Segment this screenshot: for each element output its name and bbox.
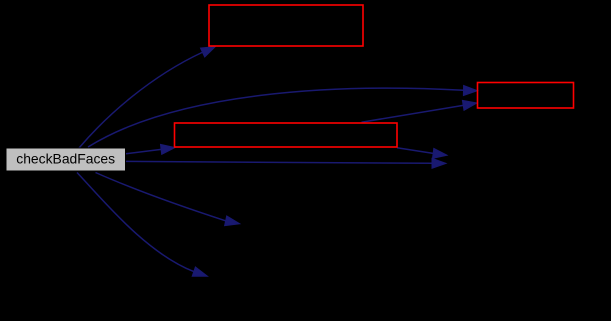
node checkBadFaces bbox=[6, 148, 126, 171]
edge checkBadFaces -> hidden node D bbox=[77, 173, 208, 277]
node top red box bbox=[209, 5, 363, 46]
edge checkBadFaces -> right red box (long arc) bbox=[88, 86, 478, 148]
edge checkBadFaces -> middle box bbox=[126, 144, 175, 154]
svg-text:checkBadFaces: checkBadFaces bbox=[16, 151, 115, 167]
edge checkBadFaces -> hidden node B bbox=[126, 158, 446, 168]
edge checkBadFaces -> top box bbox=[79, 47, 215, 148]
node middle red box bbox=[175, 123, 398, 147]
node right red box bbox=[478, 83, 574, 109]
edge checkBadFaces -> hidden node C bbox=[96, 173, 240, 226]
edge middle box -> hidden node B bbox=[397, 148, 447, 159]
edge middle box -> right red box bbox=[362, 100, 478, 122]
